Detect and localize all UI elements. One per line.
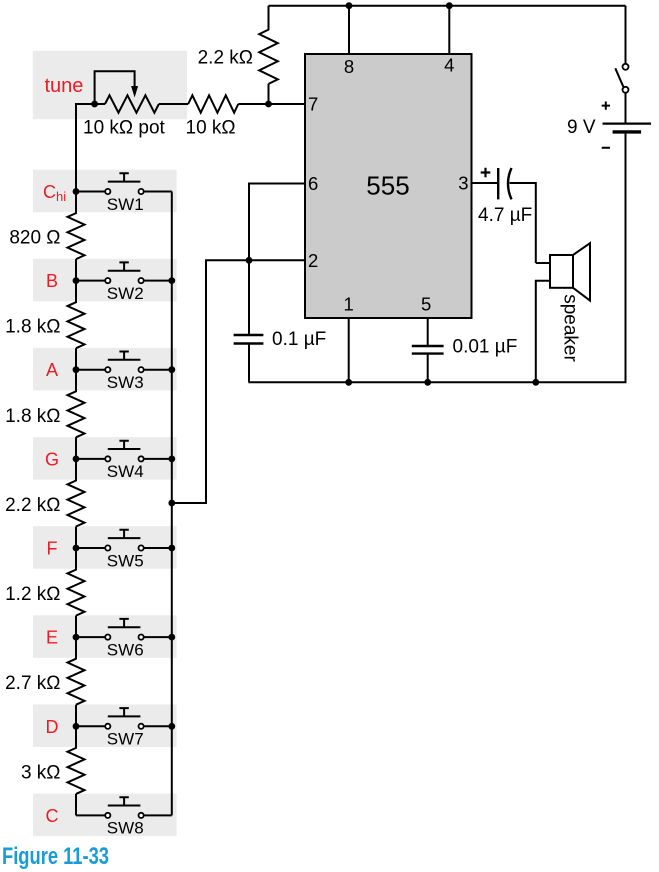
resistor ladder 3 kΩ — [68, 726, 85, 815]
svg-text:2.2 kΩ: 2.2 kΩ — [5, 495, 60, 516]
svg-text:SW6: SW6 — [107, 640, 144, 659]
pushbutton switch SW2 — [76, 262, 172, 283]
svg-text:G: G — [45, 449, 59, 469]
junction: right rail row 3 — [168, 366, 175, 373]
pushbutton switch SW5 — [76, 530, 172, 551]
resistor R1 10 k — [188, 95, 238, 112]
svg-text:5: 5 — [421, 294, 431, 315]
resistor ladder 2.2 kΩ — [68, 459, 85, 548]
svg-text:F: F — [47, 539, 58, 559]
wire: top supply rail — [269, 5, 626, 7]
wire: junction to pin 7 — [269, 103, 306, 105]
junction: right rail row 2 — [168, 277, 175, 284]
resistor ladder 1.8 kΩ — [68, 370, 85, 459]
junction: left rail row 2 — [73, 277, 80, 284]
svg-text:0.1 µF: 0.1 µF — [272, 329, 326, 350]
wire: pin 1 to bottom rail — [348, 318, 350, 382]
junction: right rail row 4 — [168, 456, 175, 463]
svg-text:D: D — [46, 717, 59, 737]
potentiometer 10 k pot — [76, 71, 159, 113]
svg-text:SW5: SW5 — [107, 551, 144, 570]
note row highlight band 5 — [33, 526, 177, 569]
svg-text:10 kΩ pot: 10 kΩ pot — [83, 118, 166, 139]
capacitor C3 0.01 uF — [412, 346, 444, 354]
svg-text:SW3: SW3 — [107, 373, 144, 392]
resistor ladder 820 Ω — [68, 192, 85, 281]
wire: capacitor C2 to bottom rail — [248, 344, 251, 383]
junction: bottom rail pin 1 — [345, 379, 352, 386]
junction: top rail pin 4 — [446, 2, 453, 9]
svg-text:1: 1 — [344, 294, 354, 315]
note row highlight band 1 — [33, 170, 177, 213]
junction: left rail row 7 — [73, 723, 80, 730]
svg-text:speaker: speaker — [560, 294, 581, 362]
tune highlight band — [33, 51, 187, 119]
wire: pin 5 to capacitor — [427, 318, 429, 346]
wire: pot left corner down to ladder — [76, 104, 95, 192]
wire: bottom ground rail — [249, 381, 536, 383]
pushbutton switch SW3 — [76, 352, 172, 373]
resistor ladder 1.8 kΩ — [68, 281, 85, 370]
wire: switch to battery + — [625, 93, 627, 124]
wire: pin 6 branch — [249, 184, 305, 261]
note row highlight band 3 — [33, 348, 177, 391]
wire: junction down to capacitor C2 — [248, 260, 250, 335]
svg-text:C: C — [46, 806, 59, 826]
junction: pot wiper node — [91, 101, 98, 108]
svg-text:3 kΩ: 3 kΩ — [21, 762, 61, 783]
svg-text:SW4: SW4 — [107, 462, 144, 481]
wire: battery - down to bottom rail — [536, 134, 626, 383]
wire: switch right rail — [171, 192, 173, 816]
junction: bottom rail speaker — [532, 379, 539, 386]
power switch S1 — [615, 64, 628, 93]
wire: pin 8 to top rail — [348, 6, 350, 54]
svg-text:8: 8 — [344, 56, 354, 77]
svg-text:6: 6 — [308, 173, 318, 194]
battery B1 9 V — [602, 102, 651, 148]
pushbutton switch SW7 — [76, 708, 172, 729]
svg-text:2: 2 — [308, 250, 318, 271]
speaker LS1 — [536, 243, 590, 382]
svg-text:SW8: SW8 — [107, 819, 144, 838]
note row highlight band 4 — [33, 437, 177, 480]
svg-text:B: B — [46, 271, 58, 291]
op IC 555 U1 — [305, 54, 472, 318]
svg-text:7: 7 — [308, 94, 318, 115]
capacitor C2 0.1 uF — [234, 335, 264, 344]
svg-text:SW1: SW1 — [107, 195, 144, 214]
svg-text:2.2 kΩ: 2.2 kΩ — [198, 48, 253, 69]
pushbutton switch SW6 — [76, 619, 172, 640]
svg-text:4: 4 — [444, 55, 454, 76]
pushbutton switch SW1 — [76, 173, 172, 194]
junction: left rail row 4 — [73, 456, 80, 463]
svg-text:A: A — [46, 360, 58, 380]
svg-text:820 Ω: 820 Ω — [9, 228, 60, 249]
junction: top rail pin 8 — [346, 2, 353, 9]
junction: right rail row 5 — [168, 545, 175, 552]
junction: left rail row 3 — [73, 366, 80, 373]
junction: right rail row 7 — [168, 723, 175, 730]
svg-text:555: 555 — [366, 171, 409, 201]
svg-text:E: E — [46, 628, 58, 648]
svg-text:3: 3 — [458, 173, 468, 194]
svg-text:SW7: SW7 — [107, 730, 144, 749]
note row highlight band 8 — [33, 794, 177, 837]
note row highlight band 2 — [33, 259, 177, 302]
pushbutton switch SW8 — [76, 797, 172, 818]
resistor R2 2.2 k — [259, 6, 278, 104]
svg-text:2.7 kΩ: 2.7 kΩ — [5, 673, 60, 694]
wire: pot to R1 — [159, 103, 188, 105]
resistor ladder 1.2 kΩ — [68, 548, 85, 637]
pushbutton switch SW4 — [76, 441, 172, 462]
junction: pin6/pin2 node — [246, 257, 253, 264]
junction: switch rail to pin 2 — [168, 500, 175, 507]
wire: pin 4 to top rail — [448, 6, 450, 54]
svg-text:tune: tune — [45, 75, 84, 97]
svg-text:1.8 kΩ: 1.8 kΩ — [5, 317, 60, 338]
svg-text:9 V: 9 V — [567, 117, 596, 138]
wire: capacitor C3 to bottom rail — [427, 354, 429, 383]
svg-text:1.2 kΩ: 1.2 kΩ — [5, 584, 60, 605]
note row highlight band 6 — [33, 615, 177, 658]
svg-text:10 kΩ: 10 kΩ — [186, 118, 236, 139]
wire: right rail top (to power switch) — [625, 6, 627, 64]
note row highlight band 7 — [33, 705, 177, 748]
wire: pin 2 branch to switch rail — [172, 260, 305, 503]
svg-text:1.8 kΩ: 1.8 kΩ — [5, 406, 60, 427]
svg-text:SW2: SW2 — [107, 284, 144, 303]
svg-text:0.01 µF: 0.01 µF — [453, 337, 518, 358]
resistor ladder 2.7 kΩ — [68, 637, 85, 726]
junction: bottom rail pin 5 — [424, 379, 431, 386]
junction: pin 7 node — [265, 101, 272, 108]
junction: right rail row 6 — [168, 634, 175, 641]
capacitor C1 4.7 uF output — [472, 168, 536, 263]
svg-text:Figure 11-33: Figure 11-33 — [2, 843, 109, 870]
junction: left rail row 5 — [73, 545, 80, 552]
junction: left rail row 1 — [73, 188, 80, 195]
svg-text:4.7 µF: 4.7 µF — [478, 205, 532, 226]
wire: R1 to junction — [238, 103, 305, 105]
junction: left rail row 6 — [73, 634, 80, 641]
